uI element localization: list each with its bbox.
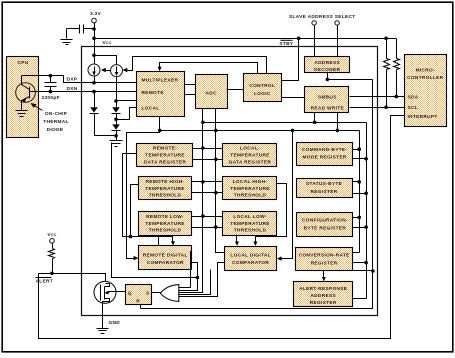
svg-text:THRESHOLD: THRESHOLD: [234, 228, 267, 234]
node status upper: [357, 180, 361, 184]
svg-text:THRESHOLD: THRESHOLD: [149, 228, 182, 234]
svg-text:SDA: SDA: [408, 95, 419, 101]
wire busB down right column V-right1: [359, 131, 361, 253]
wire mux to ADC (lower): [185, 94, 196, 96]
wire OR output to FF S: [152, 292, 161, 294]
wire status lower: [353, 193, 367, 195]
wire DXP from collector: [22, 76, 137, 83]
svg-text:2200pF: 2200pF: [42, 95, 60, 101]
wire 3.3V rail down: [94, 23, 96, 65]
svg-text:COMPARATOR: COMPARATOR: [147, 260, 184, 266]
wire remote high threshold loop to comparator: [129, 185, 175, 246]
wire row1 upper link: [193, 148, 223, 150]
resistor R2 pullup: [394, 39, 400, 97]
ground (bypass cap): [61, 40, 73, 45]
node V1 row3: [201, 214, 205, 218]
wire busB drop to local comparator right input: [277, 131, 293, 261]
node V1 row1: [201, 146, 205, 150]
wire decoder bus down to FF reset: [141, 80, 373, 309]
node Vcc rail tap: [297, 37, 301, 41]
current source I1: [88, 64, 100, 83]
wire conversion lower: [353, 262, 367, 264]
svg-text:Q: Q: [128, 290, 132, 296]
node R1/SCL: [384, 105, 388, 109]
svg-text:TEMPERATURE: TEMPERATURE: [145, 221, 185, 227]
ON-CHIP THERMAL DIODE label: [31, 103, 69, 133]
wire status upper: [353, 181, 360, 183]
svg-text:DIODE: DIODE: [47, 127, 64, 133]
svg-text:DXP: DXP: [67, 77, 78, 83]
node V2 row2: [214, 191, 218, 195]
svg-text:DECODER: DECODER: [314, 67, 340, 73]
wire mux bottom to bus: [127, 117, 160, 259]
node busB/comp feed: [291, 129, 295, 133]
wire local high threshold loop to comparator: [253, 184, 286, 246]
wire SDA: [350, 96, 405, 98]
svg-text:STATUS-BYTE: STATUS-BYTE: [306, 181, 343, 187]
node cmd upper: [357, 147, 361, 151]
svg-text:TEMPERATURE: TEMPERATURE: [145, 186, 185, 192]
svg-text:READ WRITE: READ WRITE: [311, 106, 345, 112]
3.3V supply pin: [90, 11, 102, 23]
svg-text:3.3V: 3.3V: [90, 11, 102, 17]
ground (transistor emitter): [16, 111, 28, 117]
bus B horizontal: [160, 130, 360, 132]
wire conversion upper: [353, 252, 360, 254]
wire control logic to SMBus: [282, 97, 305, 99]
wire Vcc rail: [95, 38, 397, 40]
node current source feed junction: [92, 54, 96, 58]
bus A horizontal: [203, 122, 367, 124]
wire OR input 2 from remote comparator out2: [179, 263, 198, 291]
svg-text:BYTE REGISTER: BYTE REGISTER: [304, 225, 347, 231]
wire OR input 1 from remote comparator out1: [179, 252, 192, 288]
wire config upper: [353, 217, 360, 219]
svg-text:MODE REGISTER: MODE REGISTER: [303, 155, 347, 161]
svg-text:DATA REGISTER: DATA REGISTER: [229, 160, 271, 166]
ADC U2: [196, 75, 228, 109]
CPU block: [7, 57, 39, 138]
wire busB left drop to MOSFET drain rail: [112, 143, 198, 278]
node collector/cap junction: [49, 74, 53, 78]
local temperature data register: [223, 144, 277, 167]
alert response address register: [294, 282, 353, 307]
local digital comparator: [225, 247, 277, 271]
svg-text:REGISTER: REGISTER: [311, 260, 338, 266]
node V2 row1: [214, 158, 218, 162]
Vcc pullup pin (ALERT): [47, 232, 56, 243]
svg-text:REMOTE LOW-: REMOTE LOW-: [146, 214, 184, 220]
command byte mode register: [297, 143, 353, 166]
node busB/SMBus: [336, 129, 340, 133]
multiplexer U1: [137, 72, 185, 117]
flip-flop U7: [126, 285, 152, 305]
node config lower: [364, 225, 368, 229]
wire mux select from control logic: [158, 63, 258, 74]
svg-text:CONTROLLER: CONTROLLER: [407, 75, 444, 81]
node V2 row3: [214, 225, 218, 229]
svg-text:THRESHOLD: THRESHOLD: [149, 193, 182, 199]
node Vcc rail junction: [92, 37, 96, 41]
svg-text:REGISTER: REGISTER: [311, 189, 338, 195]
wire remote low threshold to comparator: [158, 235, 160, 246]
STBY label: [279, 40, 293, 47]
wire OR input 4 from local comparator bottom: [179, 270, 211, 295]
svg-text:TEMPERATURE: TEMPERATURE: [230, 221, 270, 227]
wire address pin 2 to decoder: [337, 26, 339, 57]
svg-text:INTERRUPT: INTERRUPT: [408, 114, 438, 120]
pin slave address 2: [335, 21, 339, 25]
current source I2: [95, 56, 123, 101]
svg-text:COMMAND-BYTE-: COMMAND-BYTE-: [302, 147, 348, 153]
svg-text:STBY: STBY: [279, 41, 293, 47]
address decoder U4: [305, 57, 350, 73]
remote temperature data register: [137, 144, 193, 167]
node ALERT junction: [50, 272, 54, 276]
node busB/ADC: [214, 129, 218, 133]
node cmd lower: [364, 157, 368, 161]
svg-text:ON-CHIP: ON-CHIP: [45, 111, 68, 117]
diode D3 local sense: [112, 120, 121, 141]
ground (diode chain): [110, 141, 123, 147]
status byte register: [297, 179, 353, 198]
resistor R3 alert pullup: [49, 244, 55, 274]
wire FF Q to MOSFET gate: [117, 291, 126, 293]
wire current source control from control logic: [101, 57, 267, 74]
wire local+ to multiplexer: [117, 100, 137, 102]
remote high temperature threshold: [139, 177, 192, 200]
svg-text:LOCAL HIGH-: LOCAL HIGH-: [233, 179, 268, 185]
svg-text:ADDRESS: ADDRESS: [310, 293, 336, 299]
svg-text:THERMAL: THERMAL: [43, 119, 69, 125]
wire row1 lower link: [193, 159, 223, 161]
svg-text:LOCAL LOW-: LOCAL LOW-: [233, 214, 267, 220]
pin slave address 1: [312, 21, 316, 25]
svg-text:ADDRESS: ADDRESS: [314, 60, 340, 66]
node decoder output: [326, 78, 330, 82]
svg-text:REMOTE: REMOTE: [142, 90, 165, 96]
local low temperature threshold: [223, 212, 277, 236]
diode D2 local sense: [112, 101, 121, 120]
resistor R1 pullup: [384, 39, 390, 108]
node diode chain bottom: [114, 134, 118, 138]
wire OR input 5 from local comparator left out: [179, 263, 225, 297]
node config upper: [357, 216, 361, 220]
wire decoder to right bus: [328, 73, 373, 80]
svg-text:SMBUS: SMBUS: [318, 94, 337, 100]
wire SCL: [350, 107, 405, 109]
node busA/SMBus: [313, 121, 317, 125]
svg-text:LOCAL DIGITAL: LOCAL DIGITAL: [230, 252, 271, 258]
svg-text:CONVERSION-RATE: CONVERSION-RATE: [299, 252, 351, 258]
wire mux to ADC (upper): [185, 84, 196, 86]
svg-text:CONFIGURATION-: CONFIGURATION-: [302, 217, 348, 223]
svg-text:MICRO-: MICRO-: [416, 67, 435, 73]
wire remote data register to comparator: [123, 154, 173, 261]
transistor Q1 thermal diode: [16, 76, 36, 111]
svg-text:LOCAL-: LOCAL-: [240, 146, 260, 152]
wire row2 lower link: [192, 192, 223, 194]
svg-text:SLAVE ADDRESS SELECT: SLAVE ADDRESS SELECT: [289, 14, 356, 20]
svg-text:ADC: ADC: [206, 90, 218, 96]
wire ALERT to MOSFET drain: [53, 274, 106, 282]
microcontroller U6: [405, 55, 447, 127]
node status lower: [364, 191, 368, 195]
wire config lower: [353, 227, 367, 229]
conversion rate register: [296, 248, 353, 271]
svg-text:TEMPERATURE: TEMPERATURE: [230, 186, 270, 192]
node cap/DXN junction: [49, 90, 53, 94]
ALERT label: [36, 278, 54, 285]
control logic U3: [244, 74, 282, 102]
wire SMBus to bus B: [337, 113, 339, 131]
node DXN/clamp-diode junction: [92, 90, 96, 94]
svg-text:TEMPERATURE: TEMPERATURE: [230, 153, 270, 159]
MOSFET Q2 open drain: [94, 281, 117, 328]
SMBus block U5: [305, 87, 349, 113]
remote digital comparator: [139, 246, 192, 270]
remote low temperature threshold: [139, 212, 192, 236]
svg-text:R: R: [136, 299, 140, 305]
wire DXN: [36, 91, 137, 93]
wire address pin 1 to decoder: [314, 26, 316, 57]
svg-text:GND: GND: [109, 320, 121, 326]
svg-text:DATA REGISTER: DATA REGISTER: [144, 160, 186, 166]
wire command lower: [353, 158, 367, 160]
wire local- to multiplexer: [117, 108, 137, 120]
OR gate U8 (mirrored): [160, 285, 179, 302]
node busA/ADC: [201, 121, 205, 125]
node R2/SDA: [395, 95, 399, 99]
IC chip boundary: [82, 47, 378, 316]
wire ADC output V1 down to OR gate: [179, 109, 203, 293]
wire row3 lower link: [192, 227, 223, 229]
svg-text:ALERT: ALERT: [36, 279, 54, 285]
svg-text:SCL: SCL: [408, 105, 419, 111]
wire SMBus to bus A: [314, 113, 316, 123]
node rail/R1: [384, 37, 388, 41]
svg-text:LOCAL: LOCAL: [142, 105, 160, 111]
node local diode top: [114, 99, 118, 103]
node conv lower: [364, 261, 368, 265]
diode D1 DXN clamp: [90, 92, 117, 136]
wire command upper: [353, 149, 360, 151]
wire row2 upper link: [192, 181, 223, 183]
svg-text:COMPARATOR: COMPARATOR: [232, 260, 269, 266]
svg-text:REGISTER: REGISTER: [310, 300, 337, 306]
svg-text:ALERT-RESPONSE: ALERT-RESPONSE: [299, 286, 348, 292]
node 3.3V/cap junction: [92, 27, 96, 31]
svg-text:CONTROL: CONTROL: [249, 83, 275, 89]
svg-text:THRESHOLD: THRESHOLD: [234, 193, 267, 199]
svg-text:CPU: CPU: [17, 60, 28, 66]
wire branch to alert response register: [322, 271, 373, 282]
node V1 row2: [201, 180, 205, 184]
node local diode mid: [114, 118, 118, 122]
wire Vcc to control logic: [282, 39, 299, 81]
capacitor C1 bypass: [67, 25, 95, 39]
svg-text:MULTIPLEXER: MULTIPLEXER: [142, 78, 179, 84]
node busB/mux: [158, 129, 162, 133]
wire ADC output V2 down to local comparator: [216, 109, 225, 253]
svg-text:TEMPERATURE: TEMPERATURE: [145, 153, 185, 159]
wire local low threshold to comparator: [235, 235, 239, 246]
wire alert response out: [353, 298, 367, 300]
node FET rail / comp out2: [196, 276, 200, 280]
wire INTERRUPT/ALERT net: [39, 116, 405, 339]
wire busA down right column V-right2: [366, 123, 368, 299]
svg-text:REMOTE DIGITAL: REMOTE DIGITAL: [143, 252, 188, 258]
svg-text:REMOTE HIGH-: REMOTE HIGH-: [145, 179, 184, 185]
svg-text:S: S: [146, 290, 150, 296]
configuration byte register: [297, 213, 353, 237]
local high temperature threshold: [223, 177, 277, 200]
ground (MOSFET source): [97, 329, 109, 334]
wire ADC to control logic: [227, 89, 244, 91]
node DXP/current-source junction: [92, 81, 96, 85]
wire FF R input: [140, 305, 142, 309]
svg-text:DXN: DXN: [67, 86, 78, 92]
svg-text:REMOTE-: REMOTE-: [153, 146, 177, 152]
wire row3 upper link: [192, 216, 223, 218]
capacitor C2 2200pF: [42, 76, 60, 102]
svg-text:LOGIC: LOGIC: [254, 91, 271, 97]
node alert response branch: [371, 269, 375, 273]
